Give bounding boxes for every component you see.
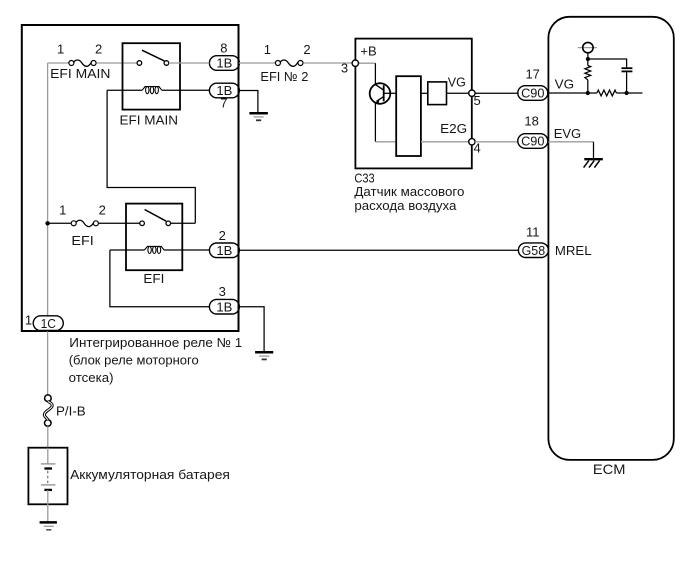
svg-text:EVG: EVG — [554, 126, 582, 141]
ECM box — [548, 17, 673, 460]
transistor Q1 — [370, 83, 391, 104]
svg-text:расхода воздуха: расхода воздуха — [354, 198, 457, 213]
ground (below 1B pin 3) — [255, 352, 273, 359]
svg-text:EFI MAIN: EFI MAIN — [50, 66, 110, 81]
svg-text:VG: VG — [555, 76, 575, 91]
svg-text:1B: 1B — [216, 243, 232, 258]
wire: splice to battery (gray) — [47, 426, 49, 447]
wire: feed to fuse EFI — [48, 222, 71, 224]
svg-text:2: 2 — [95, 42, 102, 57]
wire: VG into ECM — [548, 92, 587, 94]
svg-text:EFI MAIN: EFI MAIN — [120, 113, 179, 128]
svg-text:3: 3 — [219, 284, 226, 299]
svg-text:2: 2 — [303, 42, 310, 57]
svg-text:G58: G58 — [522, 243, 546, 258]
wire: 1B pin 3 to ground — [239, 307, 264, 352]
svg-text:C90: C90 — [521, 134, 544, 149]
svg-text:11: 11 — [526, 224, 540, 239]
svg-text:3: 3 — [341, 61, 348, 76]
junction dot (VG node right) — [625, 91, 629, 95]
wire: element to pin 4 (gray) — [421, 141, 469, 143]
connector 1B pin 8 — [209, 56, 239, 71]
svg-text:1B: 1B — [216, 299, 232, 314]
svg-text:C90: C90 — [521, 86, 544, 101]
pin 4 terminal circle — [469, 139, 475, 145]
junction dot (battery feed / EFI fuse) — [45, 221, 49, 225]
svg-text:(блок реле моторного: (блок реле моторного — [69, 353, 199, 368]
junction dot (VG node left) — [586, 91, 590, 95]
relay EFI MAIN contact — [137, 50, 169, 65]
connector 1B pin 2 — [209, 243, 239, 258]
svg-text:1: 1 — [59, 203, 66, 218]
wire: fuse to relay contact (gray) — [96, 62, 137, 64]
chassis ground (ECM) — [584, 159, 603, 167]
sensing element rectangle — [396, 76, 421, 156]
svg-text:4: 4 — [474, 141, 481, 156]
svg-text:E2G: E2G — [440, 121, 467, 136]
connector G58 pin 11 — [518, 243, 548, 258]
svg-text:17: 17 — [525, 67, 539, 82]
VG amplifier square — [428, 82, 447, 105]
pin 5 terminal circle — [469, 90, 475, 96]
svg-text:1C: 1C — [41, 316, 56, 331]
relay EFI box — [126, 204, 182, 271]
ground (below 1B pin 7) — [249, 113, 268, 120]
svg-text:1: 1 — [25, 313, 32, 328]
wire: capacitor to VG node — [626, 71, 628, 93]
wire: EVG inside ECM (gray) — [548, 141, 593, 143]
connector 1B pin 7 — [209, 83, 239, 98]
svg-text:P/I-B: P/I-B — [56, 404, 86, 419]
wire: 1B pin 7 to ground — [239, 91, 258, 113]
svg-text:VG: VG — [448, 75, 466, 90]
wire: pin 5 to C90 pin 17 — [475, 92, 518, 94]
svg-text:MREL: MREL — [555, 243, 592, 258]
junction dot (B+ node) — [586, 57, 590, 61]
label: C33 / Датчик массового расхода воздуха — [354, 170, 464, 213]
svg-text:+B: +B — [360, 44, 376, 59]
wire: battery feed vertical (gray) — [47, 63, 49, 395]
svg-text:2: 2 — [99, 203, 106, 218]
wire: transistor base to sensing element — [384, 92, 397, 94]
wire: coil drive from EFI MAIN coil to EFI relay contact — [107, 90, 195, 223]
svg-text:7: 7 — [220, 95, 227, 110]
capacitor C1 — [622, 68, 633, 71]
wire: element to VG amplifier — [421, 92, 428, 94]
wire: EFI coil to 1B pin 3 — [110, 250, 209, 307]
connector 1B pin 3 — [209, 299, 239, 314]
svg-text:Аккумуляторная батарея: Аккумуляторная батарея — [70, 467, 230, 482]
wire: node to capacitor branch — [588, 59, 627, 68]
wire: feed to fuse EFI MAIN (gray) — [48, 62, 69, 64]
wire: relay EFI contact right lead — [171, 222, 196, 224]
svg-text:EFI: EFI — [143, 271, 164, 286]
wire: emitter to sensing element (gray) — [375, 141, 396, 143]
wire: fuse EFI No.2 to MAF sensor pin 3 (gray) — [303, 62, 352, 64]
wire: pin 4 to C90 pin 18 (gray) — [475, 141, 518, 143]
wire: down to transistor collector — [374, 63, 376, 84]
connector C90 pin 18 — [518, 134, 548, 149]
svg-text:Интегрированное реле № 1: Интегрированное реле № 1 — [69, 335, 242, 350]
svg-text:8: 8 — [220, 41, 227, 56]
svg-text:1B: 1B — [216, 56, 232, 71]
wire: VG stub to ADC — [627, 92, 643, 94]
battery cells — [41, 448, 56, 522]
svg-text:EFI № 2: EFI № 2 — [260, 69, 308, 84]
wire: pin 3 to internal corner (gray) — [359, 62, 376, 64]
wire: fuse EFI to relay EFI contact — [99, 222, 140, 224]
connector C90 pin 17 — [518, 86, 548, 101]
svg-text:1: 1 — [264, 42, 271, 57]
connector 1C pin 1 — [33, 316, 63, 331]
resistor R2 (series, horizontal) — [588, 90, 627, 96]
svg-text:18: 18 — [524, 114, 538, 129]
power supply symbol B+ — [578, 42, 597, 52]
wire: MREL 1B pin 2 to G58 — [239, 249, 519, 251]
relay block box (integrated relay No.1) — [22, 25, 239, 331]
relay EFI MAIN box — [123, 43, 181, 109]
wire: 1B pin 8 to fuse EFI No.2 (gray) — [239, 62, 275, 64]
wire: amplifier to pin 5 — [447, 92, 469, 94]
resistor R1 (pull-up, vertical) — [585, 59, 591, 93]
svg-text:Датчик массового: Датчик массового — [354, 184, 464, 199]
svg-text:2: 2 — [219, 228, 226, 243]
svg-text:5: 5 — [474, 93, 481, 108]
relay EFI coil — [110, 246, 209, 253]
wire: B+ to node — [587, 53, 589, 59]
fuse EFI — [71, 220, 98, 226]
pin 3 terminal circle — [352, 60, 358, 66]
wire: EVG down to chassis ground — [593, 142, 595, 159]
ground (below battery) — [40, 522, 57, 529]
battery box — [28, 448, 67, 505]
svg-text:1: 1 — [57, 42, 64, 57]
wire: transistor emitter down — [374, 103, 376, 142]
relay EFI MAIN coil — [107, 87, 209, 94]
svg-text:отсека): отсека) — [69, 370, 114, 385]
MAF sensor box C33 — [355, 39, 471, 169]
relay EFI contact — [140, 210, 171, 226]
wire: relay contact to 1B pin 8 (gray) — [169, 62, 210, 64]
fuse EFI No.2 — [275, 60, 303, 66]
svg-text:EFI: EFI — [71, 233, 93, 248]
svg-text:ECM: ECM — [593, 461, 626, 477]
wire splice symbol P/I-B — [44, 395, 52, 426]
fuse EFI MAIN — [69, 60, 96, 66]
label: Интегрированное реле № 1 (блок реле моторного отсека) — [69, 335, 243, 385]
